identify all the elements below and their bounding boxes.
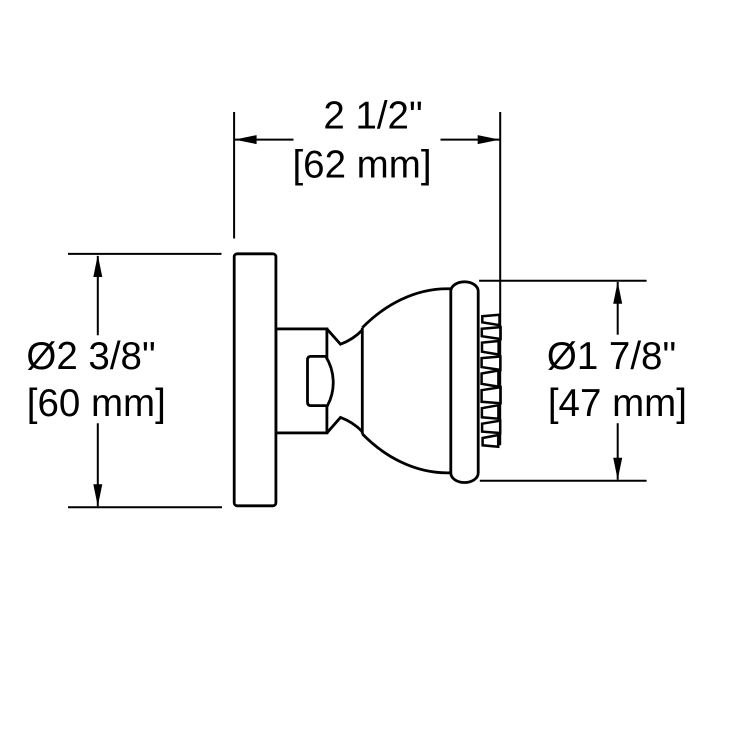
face pill — [451, 282, 478, 483]
svg-text:Ø1 7/8": Ø1 7/8" — [547, 335, 676, 378]
nozzle 2 — [482, 327, 501, 339]
svg-text:2 1/2": 2 1/2" — [323, 95, 422, 138]
arrow top right — [478, 135, 500, 144]
arrow top left — [235, 135, 257, 144]
svg-text:[60 mm]: [60 mm] — [27, 382, 166, 425]
svg-text:Ø2 3/8": Ø2 3/8" — [26, 335, 155, 378]
stem — [276, 329, 327, 433]
nozzle 3 — [482, 341, 499, 355]
dim line left lower segment — [97, 423, 99, 506]
nozzle 6 — [482, 387, 501, 403]
svg-text:[62 mm]: [62 mm] — [292, 143, 431, 186]
dim line right upper segment — [617, 282, 619, 335]
nozzle 9 — [483, 435, 499, 447]
arrow right down — [613, 458, 622, 480]
nozzle 5 — [482, 371, 499, 387]
nozzle 7 — [482, 405, 499, 419]
extension line left-bottom — [68, 506, 222, 508]
bell top profile — [362, 289, 451, 328]
svg-text:[47 mm]: [47 mm] — [548, 382, 687, 425]
arrow left down — [93, 484, 102, 506]
arrow right up — [613, 282, 622, 304]
wall flange — [234, 254, 276, 506]
nut with ball-joint arc — [308, 356, 334, 405]
dim line left upper segment — [97, 256, 99, 335]
bell seam — [361, 328, 364, 434]
extension line right-top — [479, 280, 646, 282]
extension line top-left — [233, 112, 235, 239]
extension line right-bottom — [480, 480, 647, 482]
trumpet top edge — [327, 329, 362, 344]
dim line right lower segment — [617, 423, 619, 480]
nozzle 4 — [482, 357, 501, 370]
arrow left up — [93, 255, 102, 277]
bell bottom profile — [362, 434, 451, 473]
dim line top right segment — [441, 139, 500, 141]
extension line top-right — [499, 112, 501, 445]
dim line top left segment — [235, 139, 294, 141]
nozzle 1 — [482, 315, 499, 325]
trumpet bottom edge — [327, 417, 362, 433]
nozzle 8 — [482, 421, 500, 433]
extension line left-top — [68, 253, 222, 255]
